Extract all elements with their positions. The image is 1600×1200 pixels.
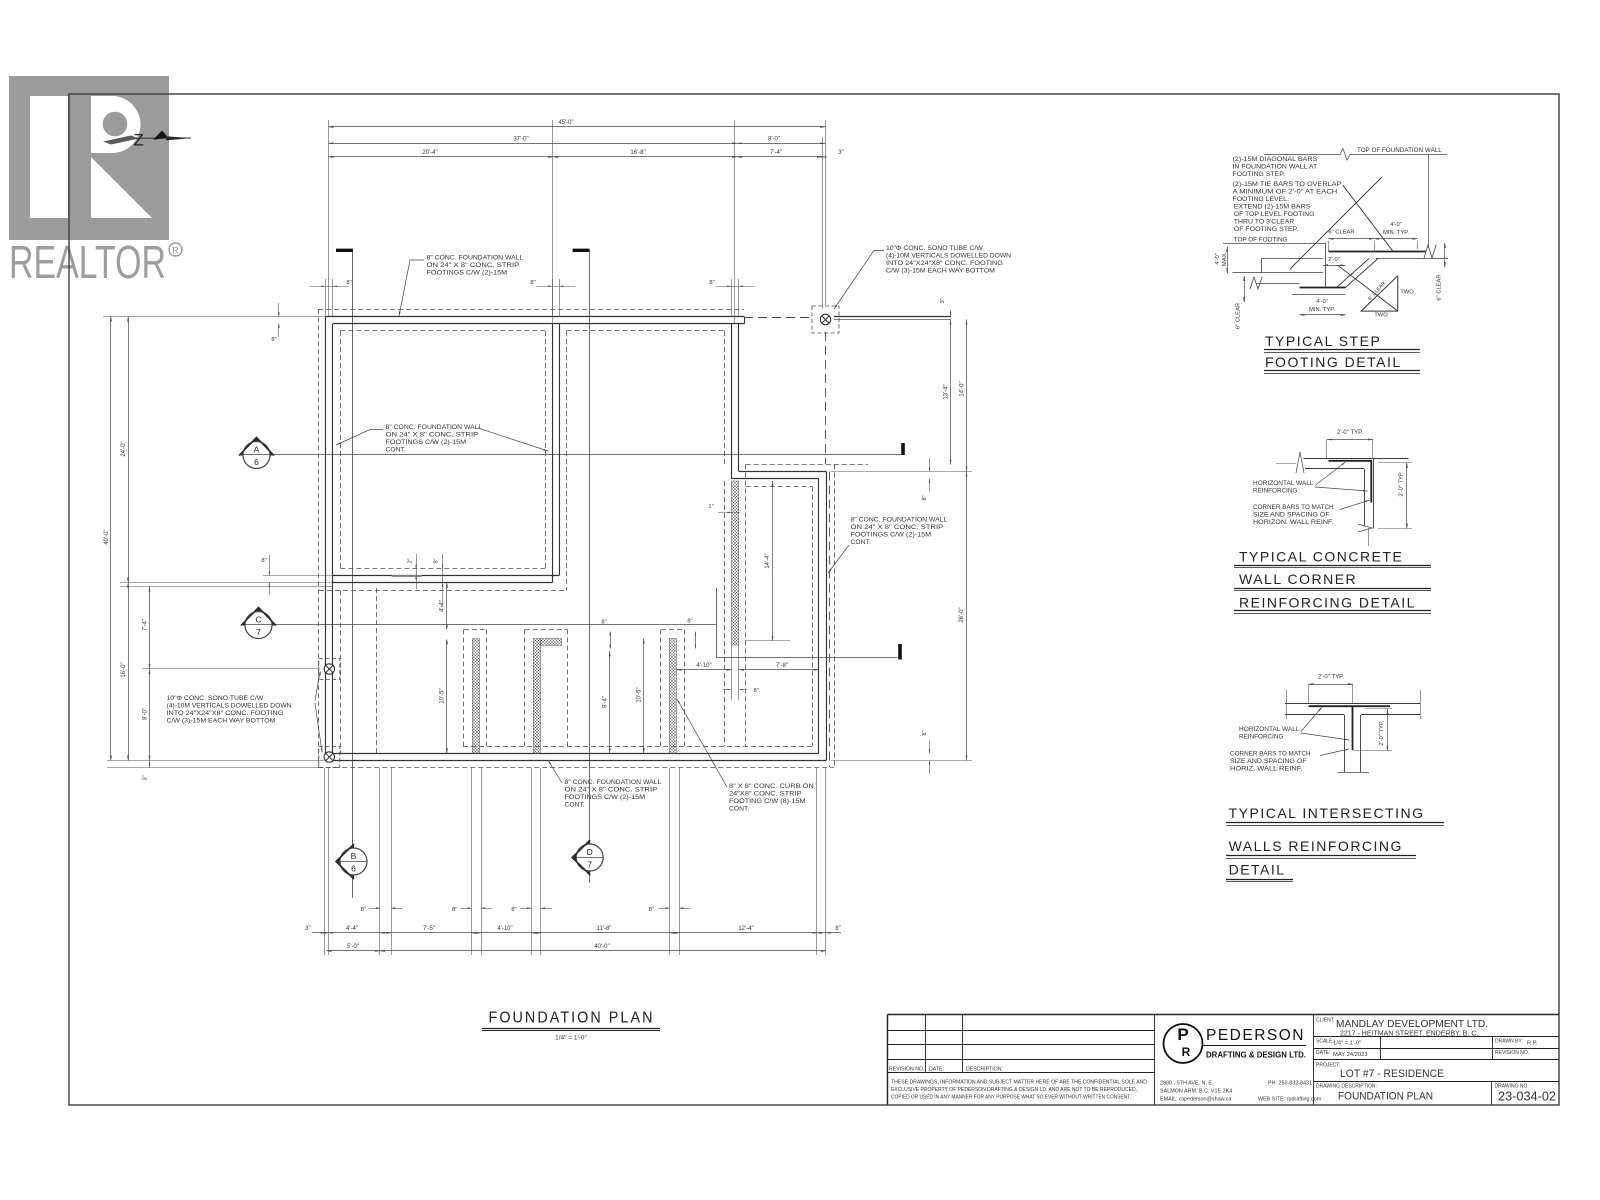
svg-text:4'-10": 4'-10" [696,663,711,669]
svg-text:8" CONC. FOUNDATION WALL: 8" CONC. FOUNDATION WALL [851,517,948,524]
svg-text:INTO 24"X24"X8" CONC. FOOTING: INTO 24"X24"X8" CONC. FOOTING [167,710,284,717]
svg-text:4'-4": 4'-4" [346,926,358,932]
svg-text:B: B [351,851,357,861]
svg-text:FOOTING DETAIL: FOOTING DETAIL [1265,354,1402,370]
svg-text:R: R [172,246,179,256]
svg-text:14'-0": 14'-0" [960,381,966,396]
svg-text:8": 8" [361,907,366,913]
svg-text:SIZE AND SPACING OF: SIZE AND SPACING OF [1253,512,1330,519]
svg-text:26'-0": 26'-0" [959,607,965,622]
svg-text:8": 8" [530,280,535,286]
svg-text:C/W (3)-15M EACH WAY BOTTOM: C/W (3)-15M EACH WAY BOTTOM [167,718,276,725]
svg-text:1": 1" [708,504,713,510]
svg-text:6" CLEAR: 6" CLEAR [1236,303,1242,329]
svg-text:12'-4": 12'-4" [738,926,753,932]
svg-text:FOOTINGS C/W (2)-15M: FOOTINGS C/W (2)-15M [386,439,467,446]
svg-text:LOT #7 - RESIDENCE: LOT #7 - RESIDENCE [1340,1068,1444,1080]
svg-text:DRAWING DESCRIPTION:: DRAWING DESCRIPTION: [1316,1084,1377,1090]
svg-text:FOUNDATION PLAN: FOUNDATION PLAN [489,1010,655,1027]
svg-text:WALLS REINFORCING: WALLS REINFORCING [1229,838,1403,854]
svg-text:INTO 24"X24"X8" CONC. FOOTING: INTO 24"X24"X8" CONC. FOOTING [886,260,1003,267]
svg-text:WEB SITE: rpdrafting.com: WEB SITE: rpdrafting.com [1258,1097,1322,1103]
svg-text:SIZE AND SPACING OF: SIZE AND SPACING OF [1230,758,1307,765]
svg-text:8": 8" [261,558,266,564]
svg-text:23-034-02: 23-034-02 [1498,1089,1556,1104]
svg-text:PROJECT:: PROJECT: [1316,1063,1340,1069]
svg-text:C/W (3)-15M EACH WAY BOTTOM: C/W (3)-15M EACH WAY BOTTOM [886,268,995,275]
svg-text:9'-4": 9'-4" [602,696,608,708]
svg-text:3": 3" [940,298,946,303]
svg-text:SALMON ARM, B.C. V1E 2K4: SALMON ARM, B.C. V1E 2K4 [1160,1089,1232,1095]
svg-text:DRAWN BY:: DRAWN BY: [1495,1039,1523,1045]
svg-text:5'-0": 5'-0" [347,944,359,950]
svg-text:10"Φ CONC. SONO TUBE C/W: 10"Φ CONC. SONO TUBE C/W [886,245,983,252]
svg-text:13'-4": 13'-4" [944,384,950,399]
svg-text:TYPICAL INTERSECTING: TYPICAL INTERSECTING [1229,805,1425,821]
svg-text:EXCLUSIVE PROPERTY OF PEDERSON: EXCLUSIVE PROPERTY OF PEDERSON DRAFTING … [891,1087,1137,1093]
svg-text:REINFORCING: REINFORCING [1239,734,1283,741]
svg-text:4'-10": 4'-10" [497,926,512,932]
svg-text:1/4" = 1'-0": 1/4" = 1'-0" [1333,1041,1361,1047]
svg-text:MIN. TYP.: MIN. TYP. [1383,230,1409,236]
svg-text:(2)-15M DIAGONAL BARS: (2)-15M DIAGONAL BARS [1233,156,1318,163]
svg-text:TWO: TWO [1374,313,1388,319]
svg-text:CORNER BARS TO MATCH: CORNER BARS TO MATCH [1253,504,1334,511]
svg-text:10"Φ CONC. SONO TUBE C/W: 10"Φ CONC. SONO TUBE C/W [167,695,264,702]
svg-text:24'-0": 24'-0" [121,441,127,456]
svg-text:7: 7 [587,860,592,870]
svg-text:40'-0": 40'-0" [594,944,609,950]
svg-text:PH: 250-832-8431: PH: 250-832-8431 [1268,1081,1312,1087]
svg-text:MAY 24/2023: MAY 24/2023 [1333,1052,1368,1058]
svg-text:3": 3" [143,775,149,780]
svg-text:ON 24" X 8" CONC. STRIP: ON 24" X 8" CONC. STRIP [386,432,479,439]
svg-text:2880 - 5TH AVE. N. E.: 2880 - 5TH AVE. N. E. [1160,1081,1214,1087]
svg-text:37'-0": 37'-0" [513,136,528,142]
svg-text:16'-0": 16'-0" [121,662,127,677]
svg-text:8'-0": 8'-0" [768,136,780,142]
svg-text:8": 8" [754,688,759,694]
svg-text:11'-8": 11'-8" [597,926,612,932]
svg-text:CORNER BARS TO MATCH: CORNER BARS TO MATCH [1230,751,1311,758]
svg-text:TWO: TWO [1400,290,1414,296]
svg-text:8": 8" [835,926,840,932]
svg-text:REALTOR: REALTOR [9,236,166,288]
svg-text:1/4" = 1'-0": 1/4" = 1'-0" [555,1035,587,1042]
svg-text:MANDLAY DEVELOPMENT LTD.: MANDLAY DEVELOPMENT LTD. [1336,1019,1488,1030]
svg-text:3": 3" [305,926,310,932]
svg-text:8": 8" [687,619,692,625]
svg-text:8" CONC. FOUNDATION WALL: 8" CONC. FOUNDATION WALL [386,424,483,431]
svg-text:CONT.: CONT. [386,447,406,454]
svg-text:2'-0" TYP.: 2'-0" TYP. [1337,430,1363,436]
svg-text:(4)-10M VERTICALS DOWELLED DOW: (4)-10M VERTICALS DOWELLED DOWN [167,703,292,710]
svg-text:ON 24" X 8" CONC. STRIP: ON 24" X 8" CONC. STRIP [565,787,658,794]
svg-text:FOOTING STEP.: FOOTING STEP. [1233,171,1286,178]
svg-text:8": 8" [922,495,928,500]
svg-text:OF FOOTING STEP.: OF FOOTING STEP. [1234,226,1299,233]
svg-text:8": 8" [601,620,606,626]
svg-text:16'-8": 16'-8" [630,150,645,156]
svg-text:EMAIL: rapederson@shaw.ca: EMAIL: rapederson@shaw.ca [1160,1097,1231,1103]
svg-text:IN FOUNDATION WALL AT: IN FOUNDATION WALL AT [1233,164,1318,171]
svg-text:4'-0": 4'-0" [1215,253,1221,265]
svg-text:10'-5": 10'-5" [440,688,446,703]
svg-text:2'-0" TYP.: 2'-0" TYP. [1318,675,1344,681]
svg-text:FOOTING LEVEL.: FOOTING LEVEL. [1233,196,1290,203]
svg-text:TYPICAL CONCRETE: TYPICAL CONCRETE [1239,549,1403,565]
svg-text:FOOTINGS C/W (2)-15M: FOOTINGS C/W (2)-15M [851,532,932,539]
svg-text:24"X8" CONC. STRIP: 24"X8" CONC. STRIP [729,791,802,798]
svg-text:D: D [587,847,593,857]
svg-text:HORIZONTAL WALL: HORIZONTAL WALL [1253,480,1314,487]
svg-text:6: 6 [254,457,259,467]
svg-text:8": 8" [452,907,457,913]
svg-text:FOOTINGS C/W (2)-15M: FOOTINGS C/W (2)-15M [565,794,646,801]
svg-text:8": 8" [511,907,516,913]
svg-text:SCALE:: SCALE: [1316,1039,1334,1045]
svg-text:HORIZON. WALL REINF.: HORIZON. WALL REINF. [1253,519,1334,526]
svg-text:TOP OF FOUNDATION WALL: TOP OF FOUNDATION WALL [1357,147,1442,154]
svg-text:8'-0": 8'-0" [143,708,149,720]
svg-text:2'-0": 2'-0" [1328,257,1340,263]
svg-text:8": 8" [271,337,276,343]
svg-text:14'-4": 14'-4" [765,553,771,568]
svg-text:CONT.: CONT. [851,539,871,546]
svg-text:THRU TO 3'CLEAR: THRU TO 3'CLEAR [1234,219,1295,226]
svg-text:ON 24" X 8" CONC. STRIP: ON 24" X 8" CONC. STRIP [851,524,944,531]
svg-text:2'-0" TYP.: 2'-0" TYP. [1399,471,1405,497]
svg-text:2'-0" TYP.: 2'-0" TYP. [1379,720,1385,746]
svg-text:COPIED OR USED IN ANY MANNER F: COPIED OR USED IN ANY MANNER FOR ANY PUR… [891,1095,1131,1101]
svg-text:THESE DRAWINGS, INFORMATION AN: THESE DRAWINGS, INFORMATION AND SUBJECT … [891,1080,1147,1086]
svg-text:(2)-15M TIE BARS TO OVERLAP: (2)-15M TIE BARS TO OVERLAP [1233,181,1342,188]
svg-text:(4)-10M VERTICALS DOWELLED DOW: (4)-10M VERTICALS DOWELLED DOWN [886,253,1011,260]
svg-text:40'-0": 40'-0" [104,529,110,544]
svg-text:DETAIL: DETAIL [1229,862,1286,878]
svg-text:8" CONC. FOUNDATION WALL: 8" CONC. FOUNDATION WALL [565,779,662,786]
svg-text:10'-5": 10'-5" [636,687,642,702]
svg-text:7: 7 [256,627,261,637]
svg-text:8" X 8" CONC. CURB ON: 8" X 8" CONC. CURB ON [729,783,814,790]
svg-text:8": 8" [434,558,440,563]
svg-text:8" CONC. FOUNDATION WALL: 8" CONC. FOUNDATION WALL [427,255,524,262]
svg-text:C: C [255,615,261,625]
svg-text:3": 3" [838,150,843,156]
svg-text:R.P.: R.P. [1527,1041,1538,1047]
svg-text:OF TOP LEVEL FOOTING: OF TOP LEVEL FOOTING [1234,211,1315,218]
svg-text:FOOTING C/W (8)-15M: FOOTING C/W (8)-15M [729,798,806,805]
svg-text:REINFORCING: REINFORCING [1253,488,1297,495]
svg-text:MAX.: MAX. [1222,252,1228,267]
svg-text:CONT.: CONT. [565,802,585,809]
svg-text:7'-5": 7'-5" [423,926,435,932]
svg-text:8": 8" [922,730,928,735]
svg-text:8": 8" [346,280,351,286]
svg-text:6" CLEAR: 6" CLEAR [1437,274,1443,300]
svg-text:Z: Z [134,131,144,150]
svg-text:REVISION NO.: REVISION NO. [889,1067,924,1073]
svg-text:TOP OF FOOTING: TOP OF FOOTING [1234,237,1288,244]
svg-text:FOUNDATION PLAN: FOUNDATION PLAN [1338,1091,1433,1103]
svg-text:2": 2" [408,558,414,563]
svg-text:WALL CORNER: WALL CORNER [1239,571,1357,587]
svg-text:HORIZ. WALL REINF.: HORIZ. WALL REINF. [1230,766,1303,773]
svg-text:R: R [1182,1045,1191,1059]
svg-text:7'-8": 7'-8" [776,663,788,669]
svg-text:6" CLEAR: 6" CLEAR [1328,230,1354,236]
svg-text:2217 - HEITMAN STREET, ENDERBY: 2217 - HEITMAN STREET, ENDERBY, B. C. [1340,1031,1478,1038]
svg-text:FOOTINGS C/W (2)-15M: FOOTINGS C/W (2)-15M [427,270,508,277]
svg-text:7'-4": 7'-4" [143,619,149,631]
svg-text:6: 6 [351,864,356,874]
svg-text:EXTEND (2)-15M BARS: EXTEND (2)-15M BARS [1234,204,1311,211]
svg-text:DATE:: DATE: [1316,1050,1330,1056]
svg-text:CONT.: CONT. [729,806,749,813]
svg-text:8": 8" [649,907,654,913]
svg-text:DRAFTING & DESIGN LTD.: DRAFTING & DESIGN LTD. [1206,1050,1306,1060]
svg-text:DESCRIPTION:: DESCRIPTION: [966,1067,1003,1073]
svg-text:DATE:: DATE: [929,1067,944,1073]
svg-text:REINFORCING DETAIL: REINFORCING DETAIL [1239,595,1416,611]
svg-text:7'-4": 7'-4" [770,150,782,156]
svg-text:A: A [254,445,260,455]
svg-text:REVISION NO.: REVISION NO. [1495,1050,1529,1056]
svg-text:MIN. TYP.: MIN. TYP. [1309,307,1335,313]
svg-text:PEDERSON: PEDERSON [1206,1027,1305,1044]
svg-text:20'-4": 20'-4" [422,150,437,156]
svg-text:TYPICAL STEP: TYPICAL STEP [1265,333,1381,349]
svg-text:8": 8" [709,280,714,286]
svg-text:HORIZONTAL WALL: HORIZONTAL WALL [1239,726,1300,733]
svg-text:4'-0": 4'-0" [1316,299,1328,305]
svg-text:CLIENT:: CLIENT: [1316,1018,1335,1024]
svg-text:P: P [1177,1025,1188,1044]
svg-text:4'-0": 4'-0" [1390,222,1402,228]
svg-text:ON 24" X 8" CONC. STRIP: ON 24" X 8" CONC. STRIP [427,262,520,269]
svg-text:A MINIMUM OF 2'-0" AT EACH: A MINIMUM OF 2'-0" AT EACH [1233,189,1338,196]
svg-text:45'-0": 45'-0" [558,120,573,126]
